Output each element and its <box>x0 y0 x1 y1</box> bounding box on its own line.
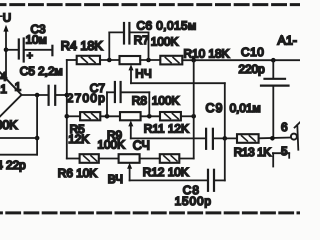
node: R4/R7/C6 <box>107 58 112 63</box>
capacitor C10 220p <box>239 45 289 138</box>
svg-text:100K: 100K <box>97 138 125 152</box>
wire C3 to end bar <box>25 49 52 51</box>
svg-text:R8: R8 <box>132 94 148 108</box>
svg-text:R4 18K: R4 18K <box>61 39 104 53</box>
wire to feedback resistor (off frame) <box>0 137 37 139</box>
svg-text:1: 1 <box>15 81 21 93</box>
svg-text:220p: 220p <box>239 62 266 76</box>
node: R5/rail <box>65 114 70 119</box>
resistor R10 18K <box>160 47 229 65</box>
wire op-amp output <box>22 94 49 96</box>
capacitor C7 2700p (parallel to R8) <box>67 81 150 117</box>
capacitor C5 2,2м <box>20 64 63 105</box>
svg-text:СЧ: СЧ <box>133 139 150 153</box>
svg-text:C9: C9 <box>206 101 224 115</box>
svg-text:C10: C10 <box>241 45 264 59</box>
svg-text:R10 18K: R10 18K <box>184 47 230 61</box>
svg-text:00K: 00K <box>0 118 18 132</box>
wire R4 to R7 <box>100 59 120 61</box>
wire R8 to R11 <box>141 115 160 117</box>
feedback rail (vertical) <box>193 60 195 158</box>
wire R13 to op-amp pin 6 <box>259 137 291 140</box>
wire R9 to R12 <box>140 158 160 160</box>
svg-text:R6 10K: R6 10K <box>58 166 97 180</box>
wire rail to R4 <box>67 59 77 61</box>
wire R12 to feedback rail <box>179 158 193 160</box>
svg-text:R11 12K: R11 12K <box>144 121 189 135</box>
wire rail to R5 <box>67 115 80 117</box>
op-amp U2 pin 5 <box>273 144 289 166</box>
resistor R5 12K <box>68 112 100 146</box>
node: C5/rail <box>65 93 70 98</box>
svg-text:1: 1 <box>0 82 7 96</box>
wire to C4 (off frame) <box>0 154 37 156</box>
resistor R4 18K <box>61 39 104 64</box>
op-amp U1 (A1.1) <box>0 56 22 133</box>
potentiometer R9 100K <box>97 128 139 163</box>
svg-text:100K: 100K <box>152 94 180 108</box>
potentiometer R7 100K <box>120 33 179 64</box>
svg-text:R12 10K: R12 10K <box>143 165 189 179</box>
node: R13/C10 <box>270 136 275 141</box>
wire rail to R6 <box>67 158 80 160</box>
svg-text:0,01м: 0,01м <box>230 101 261 115</box>
node: C9/R13/wiper riser <box>223 136 228 141</box>
node: feedback rail top <box>191 58 196 63</box>
svg-text:C6 0,015м: C6 0,015м <box>137 19 197 33</box>
svg-text:1500p: 1500p <box>175 194 212 208</box>
input node rail (vertical) <box>66 60 68 159</box>
svg-text:+: + <box>27 50 33 62</box>
wire R5 to R8 <box>100 115 120 117</box>
capacitor C3 10м <box>19 22 47 62</box>
wire R7 to R10 <box>140 59 160 61</box>
op-amp U2 input circle <box>291 134 297 140</box>
wire R6 to R9 <box>99 158 119 160</box>
svg-text:ВЧ: ВЧ <box>108 172 123 186</box>
svg-text:12K: 12K <box>68 132 89 146</box>
node: feedback R tap <box>35 136 40 141</box>
resistor R11 12K <box>144 112 189 135</box>
svg-text:U: U <box>3 12 11 25</box>
svg-text:10м: 10м <box>26 32 47 46</box>
node: output junction <box>35 93 40 98</box>
wire R10 to A1-2 (top right) <box>182 59 300 61</box>
svg-text:100K: 100K <box>151 34 179 48</box>
power +U supply arrow <box>0 12 11 79</box>
node: C10 tap <box>271 58 276 63</box>
node: R8/R11/C7 <box>147 114 152 119</box>
R7 wiper (НЧ) <box>129 64 225 138</box>
op-amp A1.1 output rail down <box>36 95 38 155</box>
node: R11/rail <box>191 114 196 119</box>
R8 wiper (СЧ) <box>128 120 205 152</box>
R9 wiper (ВЧ) <box>108 163 207 186</box>
svg-text:2700p: 2700p <box>67 91 106 105</box>
svg-text:C5 2,2м: C5 2,2м <box>20 64 63 78</box>
svg-text:R13 1K: R13 1K <box>234 145 271 159</box>
wire +U to C3 <box>6 49 18 51</box>
node: R7/R10/C6 <box>146 58 151 63</box>
capacitor C6 0,015м (parallel to R7) <box>109 19 196 60</box>
capacitor C9 0,01м <box>206 101 261 149</box>
svg-text:4 22p: 4 22p <box>0 158 26 172</box>
svg-text:R7: R7 <box>134 33 149 47</box>
resistor R12 10K <box>143 154 189 179</box>
resistor R6 10K <box>58 154 99 180</box>
capacitor C8 1500p <box>175 138 225 208</box>
terminal bar (C3 right end) <box>51 46 53 55</box>
op-amp U2 triangle edges <box>295 122 300 127</box>
svg-text:A1-: A1- <box>278 34 297 48</box>
svg-text:НЧ: НЧ <box>135 66 151 80</box>
wire R11 to feedback rail <box>181 115 194 117</box>
node: +U / C3 junction <box>4 48 9 53</box>
svg-text:5: 5 <box>281 144 288 158</box>
node: R5/R8/C7 <box>105 114 110 119</box>
wire C5 to input rail <box>56 94 67 96</box>
resistor R13 1K <box>234 134 271 159</box>
potentiometer R8 100K <box>120 94 179 121</box>
svg-text:6: 6 <box>281 120 288 134</box>
